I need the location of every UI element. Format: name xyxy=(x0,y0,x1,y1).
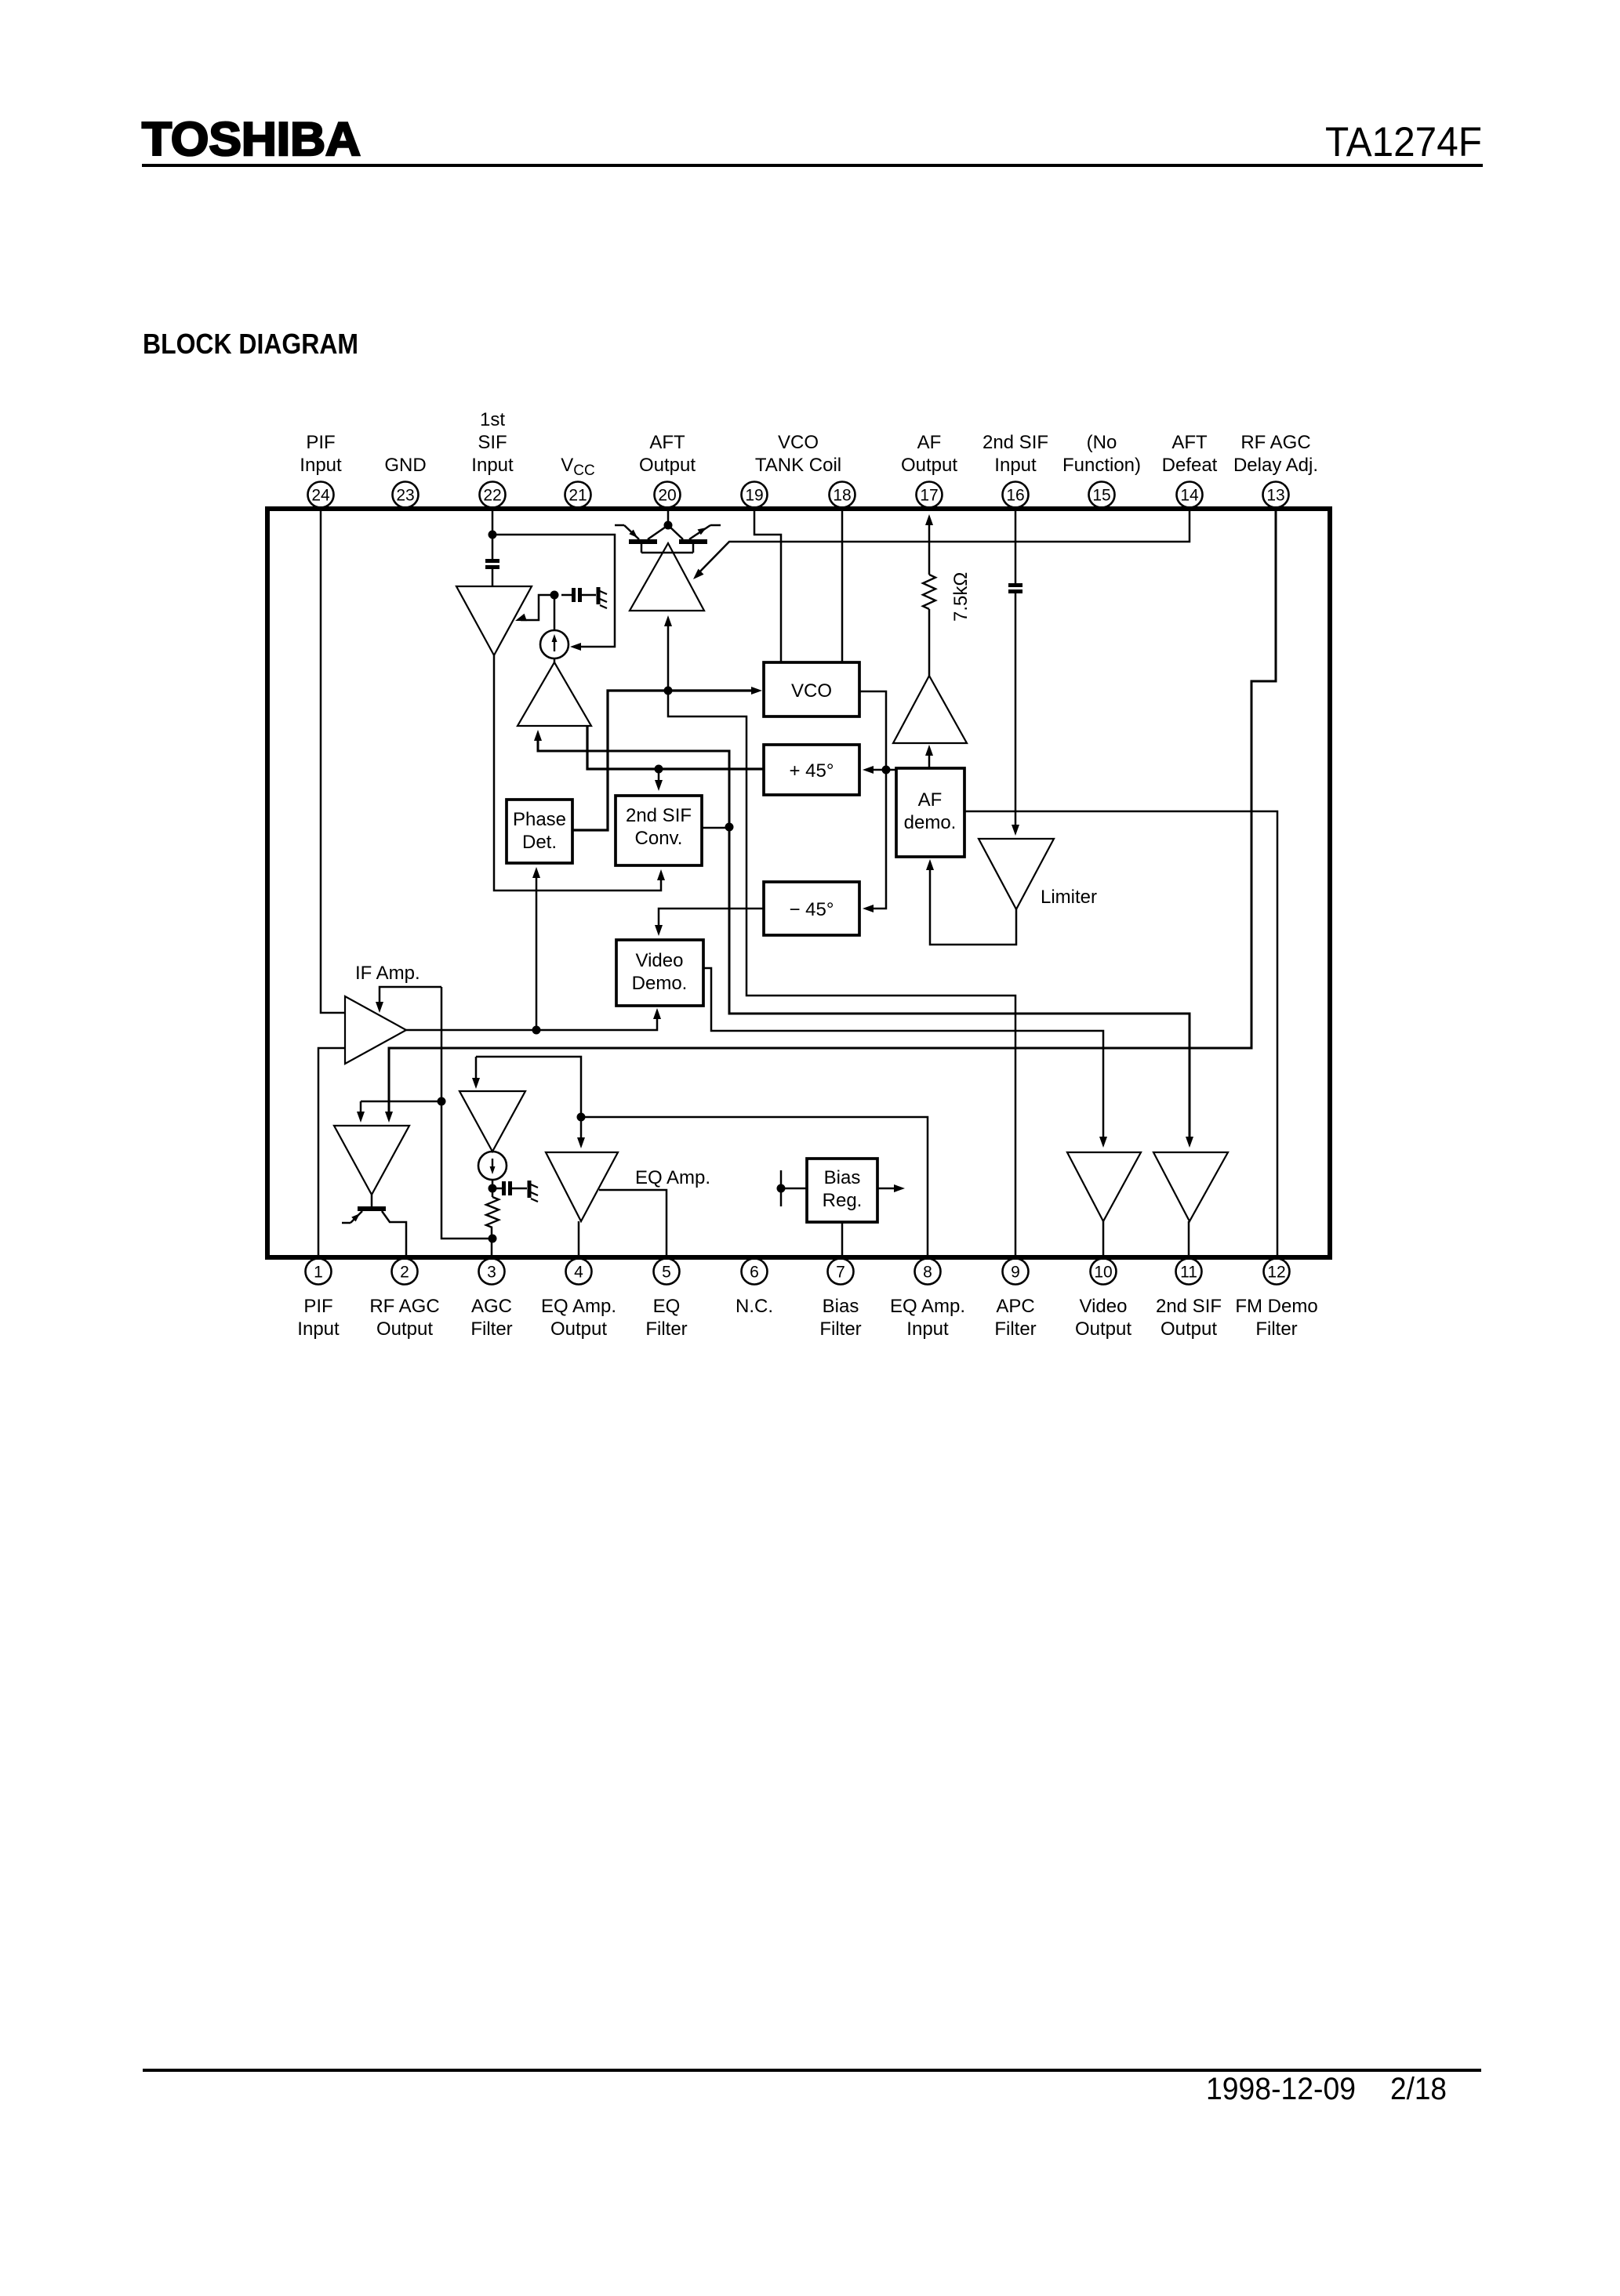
pin 18 xyxy=(830,482,855,508)
svg-text:2: 2 xyxy=(400,1264,409,1282)
svg-text:Input: Input xyxy=(994,455,1037,476)
wire AF demo output to pin12 xyxy=(964,811,1277,1255)
wire bias reg to pin7 xyxy=(841,1222,844,1255)
pin 17 xyxy=(901,432,957,508)
svg-text:Defeat: Defeat xyxy=(1162,455,1218,476)
pin 15 xyxy=(1062,432,1141,508)
pin 11 xyxy=(1156,1259,1222,1340)
current source I1 xyxy=(540,630,568,658)
pin 14 xyxy=(1162,432,1218,508)
junction dot driver output xyxy=(655,765,663,774)
transistor Q2 (AFT right) xyxy=(668,525,721,553)
wire cap to ground G2 xyxy=(512,1188,527,1190)
current source I2 xyxy=(478,1152,507,1180)
svg-text:22: 22 xyxy=(483,487,501,505)
wire video demo output to pin10 xyxy=(703,968,1107,1148)
pin 13 xyxy=(1233,432,1318,508)
pin 3 xyxy=(470,1259,512,1340)
junction dot EQ input xyxy=(577,1113,586,1122)
svg-text:TOSHIBA: TOSHIBA xyxy=(142,113,361,165)
svg-text:Output: Output xyxy=(1075,1318,1131,1340)
svg-text:AFT: AFT xyxy=(649,432,685,453)
junction dot AGC cap xyxy=(489,1184,497,1193)
amp RF AGC (inverted) xyxy=(334,1126,409,1195)
junction dot feedback xyxy=(438,1097,446,1106)
svg-text:N.C.: N.C. xyxy=(736,1296,773,1317)
svg-text:RF AGC: RF AGC xyxy=(1240,432,1310,453)
svg-text:GND: GND xyxy=(384,455,426,476)
svg-text:7: 7 xyxy=(836,1264,845,1282)
wire SIF amp output bus xyxy=(494,655,661,890)
wire pin24 to IF amp input xyxy=(321,511,344,1013)
wire AGC cap link xyxy=(492,1188,502,1190)
amp 1st SIF (inverted) xyxy=(456,586,532,655)
svg-text:Bias: Bias xyxy=(823,1296,859,1317)
wire pin22 with coupling cap xyxy=(492,511,494,586)
chassis ground G2 xyxy=(529,1181,538,1202)
amp AGC (inverted) xyxy=(459,1091,525,1152)
svg-text:Det.: Det. xyxy=(522,832,557,853)
svg-text:14: 14 xyxy=(1180,487,1199,505)
junction dot IF output xyxy=(532,1026,541,1035)
svg-text:RF AGC: RF AGC xyxy=(369,1296,439,1317)
arrow into 2nd SIF Conv bottom xyxy=(657,869,665,880)
pin 2 xyxy=(369,1259,439,1340)
svg-text:2nd SIF: 2nd SIF xyxy=(1156,1296,1222,1317)
svg-text:24: 24 xyxy=(311,487,330,505)
svg-text:15: 15 xyxy=(1092,487,1110,505)
svg-text:PIF: PIF xyxy=(306,432,335,453)
svg-text:1st: 1st xyxy=(480,409,505,430)
svg-text:EQ Amp.: EQ Amp. xyxy=(890,1296,965,1317)
svg-text:Input: Input xyxy=(297,1318,340,1340)
block AF demo. xyxy=(896,768,964,857)
svg-text:Limiter: Limiter xyxy=(1041,887,1097,908)
svg-text:10: 10 xyxy=(1094,1264,1112,1282)
block +45 deg xyxy=(764,745,859,795)
svg-text:Output: Output xyxy=(1161,1318,1217,1340)
block VCO xyxy=(764,662,859,716)
wire IF output riser to Phase Det xyxy=(532,867,540,1030)
wire -45 to video demod xyxy=(655,909,764,936)
svg-text:− 45°: − 45° xyxy=(790,899,834,920)
wire AGC feedback branch xyxy=(357,1101,441,1123)
svg-text:BLOCK DIAGRAM: BLOCK DIAGRAM xyxy=(143,328,358,360)
svg-text:Input: Input xyxy=(300,455,342,476)
svg-text:17: 17 xyxy=(920,487,938,505)
pin 19 xyxy=(742,482,768,508)
wire pin19 to VCO xyxy=(754,511,781,663)
amp EQ (inverted) xyxy=(546,1152,710,1221)
transistor Q1 (AFT left) xyxy=(615,525,668,553)
pin 10 xyxy=(1075,1259,1131,1340)
pin 12 xyxy=(1235,1259,1317,1340)
svg-text:21: 21 xyxy=(568,487,587,505)
junction dot bias xyxy=(777,1184,786,1193)
svg-text:Filter: Filter xyxy=(645,1318,687,1340)
wire pin22 branch to current source xyxy=(492,535,615,651)
resistor R2 AGC xyxy=(486,1197,499,1228)
pin 9 xyxy=(994,1259,1036,1340)
junction dot pin3 lower xyxy=(489,1235,497,1243)
amp AF output xyxy=(893,676,967,743)
wire to AFT amp base xyxy=(664,615,672,691)
svg-text:AF: AF xyxy=(918,789,943,811)
svg-text:12: 12 xyxy=(1267,1264,1285,1282)
wire pin8 to EQ input xyxy=(581,1117,928,1255)
pin 8 xyxy=(890,1259,965,1340)
capacitor C1st xyxy=(485,559,499,563)
wire cap-gnd link xyxy=(582,594,596,597)
pin 20 xyxy=(639,432,696,508)
svg-text:Reg.: Reg. xyxy=(823,1190,863,1211)
amp SIF driver xyxy=(518,662,591,726)
pin 5 xyxy=(645,1259,687,1340)
svg-text:demo.: demo. xyxy=(904,812,957,833)
svg-text:2nd SIF: 2nd SIF xyxy=(626,805,692,826)
svg-text:TANK Coil: TANK Coil xyxy=(755,455,841,476)
pin 23 xyxy=(384,455,426,508)
junction dot pin22 xyxy=(489,531,497,539)
junction dot SIF bias xyxy=(550,591,559,600)
amp Limiter xyxy=(979,839,1097,909)
wire 2nd SIF output net to pin11 xyxy=(534,730,1193,1148)
junction dot pin20 xyxy=(664,521,673,530)
wire pin20 stub xyxy=(667,511,670,522)
arrow into Video Demo bottom xyxy=(653,1008,661,1019)
wire AFT defeat from pin14 xyxy=(693,511,1190,579)
footer rule xyxy=(143,2069,1481,2072)
svg-text:TA1274F: TA1274F xyxy=(1325,119,1482,165)
svg-text:2nd SIF: 2nd SIF xyxy=(983,432,1048,453)
pin 24 xyxy=(300,432,342,508)
svg-text:AGC: AGC xyxy=(471,1296,512,1317)
svg-text:Conv.: Conv. xyxy=(635,828,683,849)
pin 22 xyxy=(471,409,514,508)
wire pin1 to IF amp input xyxy=(318,1048,344,1255)
amp IF xyxy=(345,963,420,1064)
svg-text:7.5kΩ: 7.5kΩ xyxy=(950,572,972,622)
block 2nd SIF Conv. xyxy=(616,796,702,865)
capacitor C2nd xyxy=(572,588,576,602)
wire VCO input line xyxy=(572,687,762,830)
svg-text:5: 5 xyxy=(662,1264,671,1282)
svg-text:6: 6 xyxy=(750,1264,759,1282)
svg-text:+ 45°: + 45° xyxy=(790,760,834,782)
wire APC pin9 net xyxy=(668,691,1015,1255)
footer date and page xyxy=(1206,2072,1447,2106)
wire 2nd SIF amp apex to pin11 xyxy=(1188,1221,1190,1255)
svg-text:Filter: Filter xyxy=(1255,1318,1297,1340)
pin 1 xyxy=(297,1259,340,1340)
svg-text:2/18: 2/18 xyxy=(1390,2072,1447,2106)
svg-text:IF Amp.: IF Amp. xyxy=(355,963,420,984)
wire limiter output to AF demo xyxy=(926,859,1016,945)
svg-text:23: 23 xyxy=(396,487,414,505)
svg-text:Output: Output xyxy=(901,455,957,476)
svg-text:Output: Output xyxy=(639,455,696,476)
wire IF amp output to video demod xyxy=(406,1012,657,1030)
wire cap to ground xyxy=(561,594,572,597)
wire AF amp to pin17 with resistor xyxy=(925,514,933,676)
wire SIF amp gain control xyxy=(515,595,554,621)
pins 19-18 label VCO TANK Coil xyxy=(755,432,841,476)
wire pin16 to limiter with cap xyxy=(1012,511,1019,836)
svg-text:FM Demo: FM Demo xyxy=(1235,1296,1317,1317)
svg-text:Filter: Filter xyxy=(819,1318,861,1340)
svg-text:Filter: Filter xyxy=(470,1318,512,1340)
amp AFT output xyxy=(630,543,704,611)
svg-text:9: 9 xyxy=(1011,1264,1020,1282)
pin 16 xyxy=(983,432,1048,508)
wire video amp apex to pin10 xyxy=(1102,1221,1105,1255)
junction dot VCO input xyxy=(664,687,673,695)
chassis ground G1 xyxy=(598,587,607,608)
svg-text:Filter: Filter xyxy=(994,1318,1036,1340)
wire bias reg left xyxy=(781,1170,807,1206)
wire AFT emitters xyxy=(641,552,693,554)
svg-text:Delay Adj.: Delay Adj. xyxy=(1233,455,1318,476)
pin 6 xyxy=(736,1259,773,1318)
capacitor C16 xyxy=(1008,583,1022,587)
svg-text:Demo.: Demo. xyxy=(632,973,688,994)
svg-text:Input: Input xyxy=(906,1318,949,1340)
IC package outline xyxy=(267,509,1330,1257)
wire 2nd SIF Conv output xyxy=(702,827,729,829)
wire current source to driver apex xyxy=(554,658,556,663)
block Video Demo. xyxy=(616,940,703,1006)
svg-text:Output: Output xyxy=(550,1318,607,1340)
svg-text:Video: Video xyxy=(636,950,684,971)
svg-text:13: 13 xyxy=(1266,487,1284,505)
block Bias Reg. xyxy=(807,1159,877,1222)
wire current source to decoupling cap xyxy=(554,595,556,630)
svg-text:Function): Function) xyxy=(1062,455,1141,476)
wire pin18 to VCO xyxy=(841,511,844,663)
amp 2nd SIF output (inverted) xyxy=(1153,1152,1228,1221)
svg-text:18: 18 xyxy=(833,487,851,505)
svg-text:EQ: EQ xyxy=(653,1296,681,1317)
svg-text:1: 1 xyxy=(314,1264,323,1282)
svg-text:Input: Input xyxy=(471,455,514,476)
junction dot phase shifter feed xyxy=(882,766,891,774)
svg-text:16: 16 xyxy=(1006,487,1024,505)
svg-text:4: 4 xyxy=(574,1264,583,1282)
wire bias reg output xyxy=(877,1184,905,1192)
svg-text:VCO: VCO xyxy=(778,432,819,453)
svg-text:EQ Amp.: EQ Amp. xyxy=(635,1167,710,1188)
svg-text:8: 8 xyxy=(923,1264,932,1282)
svg-text:EQ Amp.: EQ Amp. xyxy=(541,1296,616,1317)
wire EQ amp apex to pin4 xyxy=(578,1221,580,1255)
pin 21 xyxy=(565,482,591,508)
svg-text:(No: (No xyxy=(1087,432,1117,453)
block -45 deg xyxy=(764,882,859,935)
svg-text:PIF: PIF xyxy=(303,1296,332,1317)
transistor Q3 (RF AGC) xyxy=(342,1195,406,1255)
svg-text:SIF: SIF xyxy=(478,432,507,453)
amp video output (inverted) xyxy=(1067,1152,1141,1221)
svg-text:Output: Output xyxy=(376,1318,433,1340)
svg-text:AFT: AFT xyxy=(1171,432,1208,453)
wire VCO to phase shifters xyxy=(859,691,896,912)
wire IF amp feedback loop xyxy=(376,987,490,1239)
svg-text:Video: Video xyxy=(1080,1296,1128,1317)
svg-text:Bias: Bias xyxy=(824,1167,861,1188)
wire pin13 RF AGC delay xyxy=(385,511,1276,1123)
header rule xyxy=(142,164,1483,167)
svg-text:20: 20 xyxy=(658,487,676,505)
wire SIF driver output xyxy=(587,726,764,791)
svg-text:AF: AF xyxy=(917,432,942,453)
svg-text:1998-12-09: 1998-12-09 xyxy=(1206,2072,1356,2106)
svg-text:APC: APC xyxy=(996,1296,1034,1317)
wire EQ amp to pin5 xyxy=(599,1190,667,1255)
svg-text:19: 19 xyxy=(745,487,763,505)
svg-text:3: 3 xyxy=(487,1264,496,1282)
wire EQ input net xyxy=(472,1057,585,1148)
capacitor C3 xyxy=(502,1181,506,1195)
svg-text:VCO: VCO xyxy=(791,680,832,702)
pin 4 xyxy=(541,1259,616,1340)
resistor R1 7.5k xyxy=(923,572,972,622)
svg-text:11: 11 xyxy=(1180,1264,1197,1282)
pin 7 xyxy=(819,1259,861,1340)
junction dot 2nd SIF output xyxy=(725,823,734,832)
wire AF demo to AF amp xyxy=(925,745,933,768)
svg-text:Phase: Phase xyxy=(513,809,566,830)
wire pin3 chain xyxy=(492,1180,492,1255)
block Phase Det. xyxy=(507,800,572,863)
